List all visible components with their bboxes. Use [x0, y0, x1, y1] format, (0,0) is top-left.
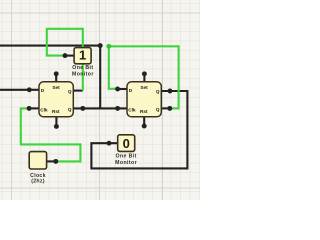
svg-text:Monitor: Monitor [115, 160, 137, 166]
node FF2 Set pin [142, 71, 147, 76]
node monitor M0 input pin [107, 141, 112, 146]
D flip-flop U1 box [39, 82, 73, 117]
svg-text:Set: Set [52, 85, 60, 90]
clock CLK1 box [29, 152, 46, 169]
wire FF2 Qbar output stub [161, 107, 170, 109]
wire green FF2 Qbar feedback to FF2 D [109, 46, 179, 108]
wire FF1 Rst bottom pin stub [55, 116, 57, 126]
wire FF1 Clk input stub [29, 107, 39, 109]
node M1 pin junction [63, 53, 68, 58]
svg-text:1: 1 [79, 48, 86, 63]
svg-text:One Bit: One Bit [115, 154, 136, 160]
node FF1 Set pin [54, 71, 59, 76]
node FF2 Rst pin [142, 124, 147, 129]
node FF1 Clk pin [27, 106, 32, 111]
svg-text:Monitor: Monitor [72, 72, 94, 78]
wire monitor M1 input stub [65, 55, 75, 57]
one bit monitor M1 box [74, 48, 91, 64]
wire FF2 Q to monitor M0 loop [91, 91, 187, 168]
node FF1 Qbar pin [80, 106, 85, 111]
svg-text:0: 0 [123, 136, 130, 151]
wire green clock net to FF1 Clk [21, 108, 81, 161]
svg-text:D: D [129, 88, 133, 93]
node FF2 D pin [115, 87, 120, 92]
svg-text:Clk: Clk [128, 107, 136, 112]
node FF1 Rst pin [54, 124, 59, 129]
wire Q1bar net: top horizontal + drop to FF2 clk row [0, 46, 100, 109]
svg-text:Set: Set [140, 85, 148, 90]
D flip-flop U2 box [127, 82, 161, 117]
node FF1 D pin [27, 87, 32, 92]
node FF2 Qbar pin [167, 106, 172, 111]
wire FF1 Q output stub [73, 90, 83, 92]
op components [29, 48, 161, 185]
svg-text:Q: Q [156, 107, 160, 112]
wire green Q1 to monitor M1 loop [47, 29, 83, 91]
svg-text:Clk: Clk [40, 107, 48, 112]
svg-text:Rst: Rst [52, 109, 60, 114]
svg-text:Rst: Rst [140, 109, 148, 114]
wire FF2 Rst bottom pin stub [143, 116, 145, 126]
svg-text:Q: Q [68, 107, 72, 112]
wire FF1 D input from left edge [0, 89, 39, 91]
wire FF2 Set top pin stub [143, 74, 145, 83]
svg-text:Q: Q [156, 89, 160, 94]
svg-text:One Bit: One Bit [72, 65, 93, 71]
svg-text:(2hz): (2hz) [31, 179, 45, 185]
svg-text:Q: Q [68, 89, 72, 94]
node clock output pin [53, 159, 58, 164]
svg-text:D: D [41, 88, 45, 93]
wire FF2 D input stub [118, 88, 127, 90]
node FF2 Clk pin [115, 106, 120, 111]
wire clock output stub [47, 160, 56, 162]
node green corner junction [106, 44, 111, 49]
node junction at (100,45.6) [98, 43, 103, 48]
node FF2 Q pin [168, 89, 173, 94]
wire FF1 Qbar to FF2 Clk [73, 107, 127, 109]
one bit monitor M0 box [118, 135, 135, 152]
wire FF1 Set top pin stub [55, 74, 57, 83]
